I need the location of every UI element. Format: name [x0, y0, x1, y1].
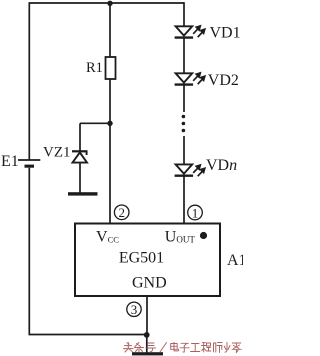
slash [160, 343, 167, 353]
svg-text:EG501: EG501 [119, 250, 164, 267]
svg-text:VZ1: VZ1 [43, 145, 71, 161]
wire junction to VCC pin 2 [109, 123, 111, 224]
wire junction to VZ1 branch [80, 122, 110, 124]
ground (below VZ1) [68, 192, 98, 195]
svg-text:VD1: VD1 [210, 25, 241, 42]
wire LED chain top [183, 2, 185, 27]
wire top horizontal rail [29, 2, 184, 4]
char shi [214, 343, 223, 353]
svg-text:R1: R1 [86, 60, 103, 76]
wire GND pin 3 down [146, 296, 148, 335]
op-amp / IC U1 EG501 box [75, 224, 220, 297]
zener diode VZ1 [72, 151, 88, 162]
battery E1 [18, 160, 40, 168]
svg-text:A1: A1 [227, 252, 243, 269]
wire left rail lower (battery to bottom) [28, 168, 30, 335]
char gong [191, 344, 200, 352]
wire left rail upper (top to battery) [28, 2, 30, 160]
svg-text:2: 2 [118, 205, 125, 220]
LED VDn light arrows [193, 165, 205, 176]
LED VD1 [175, 26, 194, 37]
wire from top rail to R1 [109, 3, 111, 58]
char tiao [135, 343, 144, 353]
LED VDn [175, 164, 194, 175]
wire VZ1 to ground [79, 163, 81, 193]
node dot after Uout [200, 232, 207, 239]
char hao [146, 343, 156, 352]
wire R1 to junction [109, 79, 111, 124]
pin 3 circled [127, 302, 141, 317]
svg-text:1: 1 [192, 205, 199, 220]
svg-text:3: 3 [131, 302, 138, 317]
char zi [180, 343, 189, 352]
wire to VDn [183, 136, 185, 166]
wire VD2 down [183, 85, 185, 112]
pin 2 circled [114, 205, 129, 220]
char xiao [224, 343, 230, 353]
LED VD1 light arrows [193, 26, 205, 37]
char cheng [202, 343, 211, 353]
char li [232, 343, 241, 353]
svg-text:GND: GND [132, 275, 167, 292]
svg-text:E1: E1 [1, 153, 19, 170]
wire VD1 to VD2 [183, 38, 185, 75]
ground (bottom) [132, 352, 163, 355]
node ellipsis dots (more LEDs) [182, 115, 186, 133]
node junction bottom [144, 332, 150, 338]
node junction mid (VZ1 tap) [107, 121, 112, 126]
node junction top (R1 tap) [107, 1, 112, 6]
char tou [124, 343, 134, 353]
wire VDn to UOUT pin 1 [183, 176, 185, 224]
svg-text:VDn: VDn [206, 157, 237, 174]
svg-text:VD2: VD2 [208, 72, 239, 89]
resistor R1 [106, 57, 116, 79]
wire down to VZ1 [79, 123, 81, 151]
wire junction to bottom ground [146, 335, 148, 353]
pin 1 circled [188, 205, 203, 220]
LED VD2 light arrows [193, 73, 205, 84]
LED VD2 [175, 73, 194, 84]
char dian [171, 342, 179, 351]
wire bottom horizontal rail [29, 334, 147, 336]
